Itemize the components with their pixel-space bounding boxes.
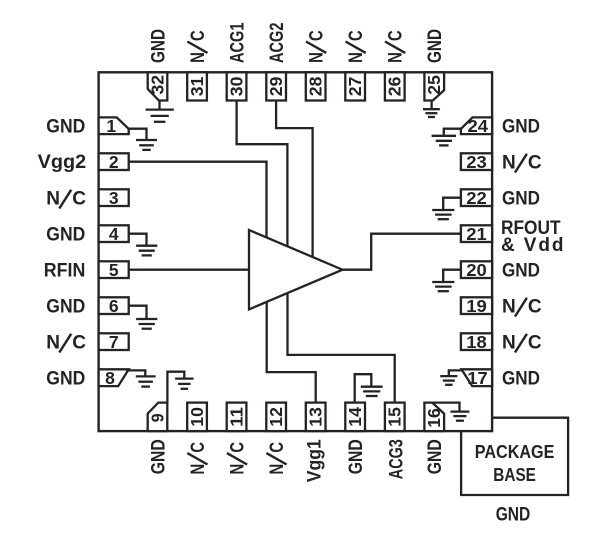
ground at pin 24 — [432, 135, 456, 137]
pin 5 (RFIN) box — [99, 261, 129, 278]
pin 24 ground wire — [444, 129, 462, 136]
pin 4 ground wire — [129, 234, 147, 246]
svg-text:7: 7 — [109, 332, 119, 352]
svg-text:32: 32 — [147, 75, 167, 95]
package base box — [461, 418, 568, 495]
svg-text:GND: GND — [148, 29, 169, 63]
pin 22 ground wire — [443, 198, 461, 210]
svg-text:C: C — [267, 442, 288, 453]
pin 28 (N/C) box — [306, 72, 326, 100]
svg-text:GND: GND — [502, 369, 540, 390]
svg-text:9: 9 — [147, 413, 167, 422]
svg-text:N: N — [346, 52, 367, 63]
pin 3 (N/C) box — [99, 189, 129, 206]
pin 23 (N/C) box — [461, 153, 492, 170]
pin 1 (GND) box — [99, 117, 129, 134]
svg-text:C: C — [528, 333, 542, 354]
svg-text:12: 12 — [266, 407, 286, 427]
svg-text:& Vdd: & Vdd — [501, 235, 564, 256]
svg-text:ACG1: ACG1 — [228, 22, 249, 63]
svg-text:GND: GND — [502, 261, 540, 282]
svg-text:20: 20 — [466, 260, 487, 280]
svg-text:27: 27 — [345, 77, 365, 97]
svg-text:29: 29 — [266, 76, 286, 96]
svg-text:RFIN: RFIN — [44, 261, 86, 282]
svg-text:C: C — [228, 442, 249, 453]
pin 9 ground wire — [167, 372, 184, 403]
pin 13 (Vgg1) box — [306, 403, 326, 432]
pin 20 (GND) box — [461, 261, 492, 278]
ground at pin 22 — [432, 209, 454, 211]
svg-text:GND: GND — [425, 29, 446, 63]
wire Vgg1 pin 13 to amp — [267, 301, 316, 402]
svg-text:N: N — [228, 464, 249, 475]
svg-text:N: N — [46, 333, 60, 354]
ground at pin 4 — [136, 245, 157, 247]
pin 7 (N/C) box — [99, 333, 129, 350]
svg-text:18: 18 — [466, 332, 487, 352]
svg-text:N: N — [502, 297, 516, 318]
wire RFIN pin 5 to amp input — [129, 269, 249, 271]
svg-text:14: 14 — [345, 407, 365, 427]
svg-text:30: 30 — [227, 76, 247, 96]
svg-text:31: 31 — [187, 76, 207, 96]
svg-text:N: N — [502, 333, 516, 354]
ground at pin 14 — [361, 386, 383, 388]
pin 27 (N/C) box — [345, 72, 365, 100]
package outline — [99, 72, 493, 431]
pin 12 (N/C) box — [266, 403, 286, 432]
svg-text:C: C — [307, 30, 328, 41]
pin 32 (GND) box — [148, 72, 168, 100]
op-amp U1 amplifier triangle — [249, 230, 343, 309]
svg-text:C: C — [528, 297, 542, 318]
ground at pin 17 — [440, 375, 457, 377]
svg-text:GND: GND — [46, 117, 85, 138]
pin 14 (GND) box — [345, 403, 365, 432]
svg-text:GND: GND — [502, 189, 540, 210]
svg-text:15: 15 — [385, 407, 405, 427]
wire ACG2 pin 29 to amp — [276, 101, 313, 258]
svg-text:28: 28 — [306, 76, 326, 96]
pin 32 ground stem — [158, 101, 160, 110]
svg-text:19: 19 — [466, 296, 487, 316]
pin 17 (GND) box — [462, 369, 493, 386]
wire ACG1 pin 30 to amp — [237, 101, 288, 247]
svg-text:GND: GND — [496, 504, 531, 525]
svg-text:GND: GND — [46, 297, 85, 318]
svg-text:5: 5 — [109, 260, 119, 280]
ground at pin 25 — [423, 108, 440, 110]
ground at pin 9 — [175, 377, 194, 379]
pin 16 (GND) box — [424, 403, 444, 432]
wire ACG3 pin 15 to amp — [288, 292, 395, 402]
ground at pin 6 — [136, 318, 157, 320]
pin 6 (GND) box — [99, 297, 129, 314]
svg-text:BASE: BASE — [493, 464, 536, 485]
svg-text:ACG2: ACG2 — [267, 23, 288, 64]
pin 15 (ACG3) box — [385, 403, 405, 432]
ground at pin 16 — [450, 410, 469, 412]
svg-text:10: 10 — [187, 407, 207, 427]
pin 26 (N/C) box — [385, 72, 405, 100]
svg-text:GND: GND — [46, 369, 85, 390]
ground at pin 32 — [146, 108, 174, 110]
svg-text:N: N — [188, 52, 209, 63]
svg-text:N: N — [502, 153, 516, 174]
svg-text:3: 3 — [109, 188, 119, 208]
svg-text:GND: GND — [502, 117, 540, 138]
pin 9 (GND) box — [148, 403, 168, 432]
svg-text:ACG3: ACG3 — [387, 439, 408, 479]
svg-text:Vgg2: Vgg2 — [38, 152, 87, 173]
svg-text:C: C — [346, 30, 367, 41]
pin 6 ground wire — [129, 306, 147, 319]
pin 2 (Vgg2) box — [99, 153, 129, 170]
pin 14 ground wire — [355, 374, 372, 402]
svg-text:N: N — [307, 52, 328, 63]
pin 20 ground wire — [443, 270, 461, 282]
svg-text:N: N — [386, 52, 407, 63]
ground at pin 8 — [136, 375, 156, 377]
svg-text:2: 2 — [109, 152, 119, 172]
svg-text:N: N — [188, 464, 209, 475]
pin 4 (GND) box — [99, 225, 129, 242]
pin 8 (GND) box — [99, 369, 129, 386]
svg-text:26: 26 — [385, 76, 405, 96]
ground at pin 1 — [136, 139, 157, 141]
svg-text:16: 16 — [424, 408, 444, 428]
pin 17 ground wire — [449, 370, 462, 376]
pin 21 (RFOUT & Vdd) box — [461, 225, 492, 242]
svg-text:GND: GND — [46, 225, 85, 246]
pin 11 (N/C) box — [227, 403, 247, 432]
pin 10 (N/C) box — [187, 403, 207, 432]
svg-text:25: 25 — [424, 75, 444, 95]
svg-text:C: C — [188, 442, 209, 453]
svg-text:N: N — [46, 189, 60, 210]
pin 16 ground wire — [432, 403, 459, 412]
pin 24 (GND) box — [461, 117, 492, 134]
svg-text:GND: GND — [346, 439, 367, 474]
svg-text:1: 1 — [106, 116, 116, 136]
svg-text:11: 11 — [227, 407, 247, 427]
pin 8 ground wire — [126, 370, 145, 376]
ground at pin 20 — [432, 281, 454, 283]
svg-text:N: N — [267, 464, 288, 475]
svg-text:21: 21 — [466, 224, 487, 244]
svg-text:17: 17 — [467, 368, 488, 388]
svg-text:C: C — [528, 153, 542, 174]
svg-text:C: C — [72, 333, 86, 354]
svg-text:C: C — [72, 189, 86, 210]
svg-text:Vgg1: Vgg1 — [305, 439, 326, 482]
svg-text:23: 23 — [466, 152, 487, 172]
pin 25 (GND) box — [424, 72, 444, 100]
svg-text:6: 6 — [109, 296, 119, 316]
wire Vgg2 pin 2 to amp — [129, 162, 267, 238]
pin 22 (GND) box — [461, 189, 492, 206]
svg-text:22: 22 — [466, 188, 487, 208]
svg-text:24: 24 — [468, 116, 489, 136]
pin 31 (N/C) box — [187, 72, 207, 100]
svg-text:GND: GND — [425, 439, 446, 474]
svg-text:4: 4 — [109, 224, 119, 244]
wire amp output to RFOUT pin 21 — [343, 234, 461, 270]
pin 30 (ACG1) box — [227, 72, 247, 100]
svg-text:13: 13 — [306, 407, 326, 427]
svg-text:C: C — [188, 30, 209, 41]
pin 18 (N/C) box — [461, 333, 492, 350]
svg-text:8: 8 — [105, 368, 115, 388]
pin 19 (N/C) box — [461, 297, 492, 314]
svg-text:GND: GND — [148, 439, 169, 474]
pin 25 ground stem — [430, 101, 432, 110]
svg-text:C: C — [386, 30, 407, 41]
pin 1 ground wire — [128, 129, 147, 140]
pin 29 (ACG2) box — [266, 72, 286, 100]
svg-text:PACKAGE: PACKAGE — [475, 441, 555, 462]
